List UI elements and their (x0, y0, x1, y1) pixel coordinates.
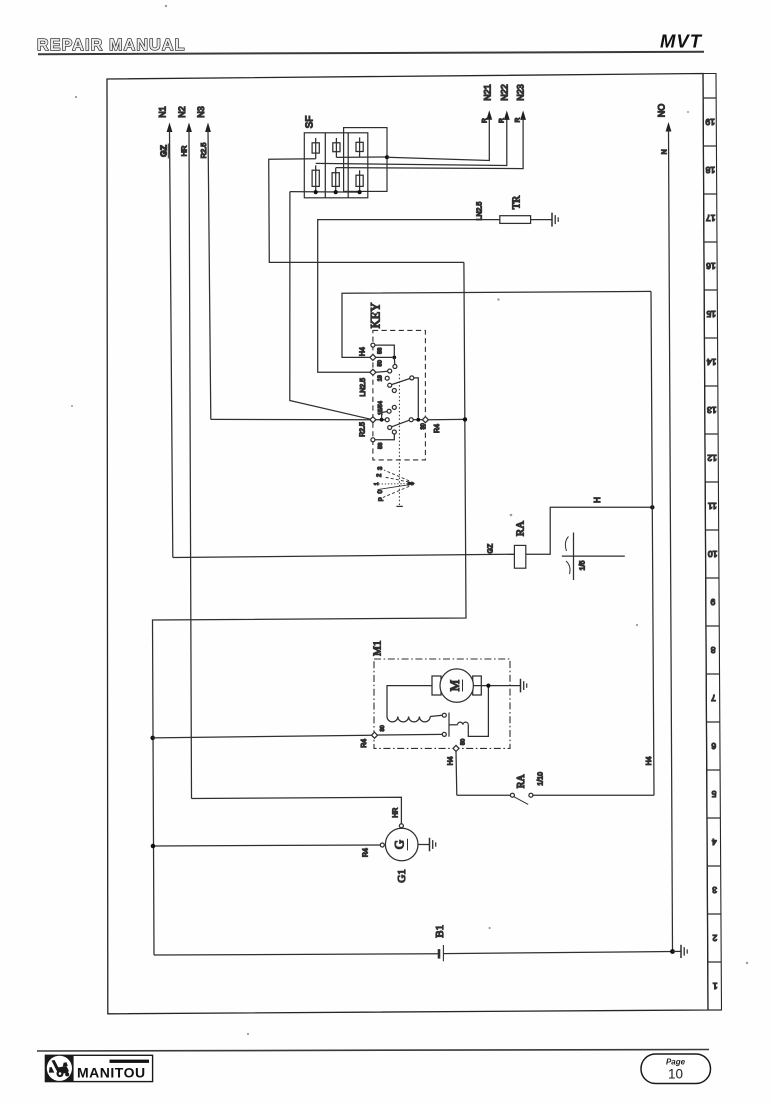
fuse F1 top row (312, 138, 319, 159)
ground at TR (552, 213, 558, 227)
svg-text:2: 2 (377, 473, 383, 477)
wire H4 label at solenoid bus (646, 756, 653, 765)
svg-text:KEY: KEY (369, 303, 383, 329)
fuse box SF label (305, 116, 316, 129)
node N23 arrow (336, 84, 526, 168)
svg-text:P: P (379, 497, 385, 501)
svg-text:12: 12 (707, 453, 717, 463)
KEY terminal 58 top (371, 343, 394, 355)
svg-text:N: N (662, 149, 669, 154)
fuse box SF outline A (304, 133, 368, 198)
SF supply bus wire (290, 191, 361, 194)
schematic outer frame (107, 74, 708, 1014)
motor M circle (432, 669, 481, 702)
wire H4 into KEY 50 (loop to solenoid bus) (342, 291, 651, 357)
svg-text:HR: HR (180, 145, 189, 156)
wire LN2.5 label at KEY (360, 378, 367, 397)
svg-text:17: 17 (706, 213, 716, 223)
svg-text:Page: Page (666, 1058, 686, 1067)
wire R2.5 label on N3 wire (199, 143, 208, 159)
KEY position fan arrow (378, 470, 416, 498)
fuse F5 bottom row (332, 168, 339, 192)
pin R label N21 (482, 118, 489, 123)
wire HR from N2 down to G1 (192, 797, 402, 824)
header logo MVT (660, 31, 703, 52)
page number oval (641, 1054, 711, 1084)
footer rule (37, 1050, 709, 1052)
header title REPAIR MANUAL (37, 37, 186, 54)
wire GZ horizontal to RA coil (173, 543, 515, 557)
junction fuse top tie (385, 155, 389, 159)
wire RA 1/10 to solenoid bus (533, 794, 654, 796)
svg-text:5: 5 (711, 789, 716, 799)
solenoid contact terminals (442, 713, 449, 737)
wire HR label on N2 wire (180, 145, 189, 156)
svg-text:H4: H4 (646, 756, 653, 765)
wire GZ label on N1 wire (159, 144, 169, 159)
battery B1 (434, 925, 446, 961)
svg-text:RA: RA (514, 521, 526, 536)
svg-text:50: 50 (460, 739, 466, 745)
wire solenoid bus vertical (KEY50 loop down to RA 1/10) (651, 291, 654, 795)
fuse F3 top row (356, 137, 363, 157)
KEY terminal 50 (370, 354, 392, 366)
switch KEY label (369, 303, 383, 329)
junction at 15/54 branch (380, 405, 397, 421)
fuse F4 bottom row (312, 165, 319, 192)
svg-text:GZ: GZ (159, 145, 169, 157)
svg-text:R: R (498, 118, 505, 123)
fuse F6 bottom row (356, 170, 363, 192)
wire R4 to G1 (153, 845, 380, 857)
wire long vertical KEY30/R4 down to lower bus (153, 262, 467, 955)
svg-text:H: H (593, 497, 602, 503)
svg-text:3: 3 (378, 466, 384, 470)
switch RA 1/10 (510, 772, 544, 805)
svg-text:16: 16 (706, 261, 716, 271)
svg-text:NO: NO (657, 104, 667, 118)
wire LN2.5 label near TR (477, 202, 484, 221)
svg-text:58: 58 (378, 443, 384, 449)
inductor field coil (387, 715, 442, 722)
svg-text:9: 9 (710, 597, 715, 607)
svg-text:0: 0 (378, 489, 384, 493)
svg-text:7: 7 (711, 693, 716, 703)
svg-text:N22: N22 (499, 84, 509, 101)
node N1 arrow (158, 106, 173, 557)
svg-text:RA: RA (516, 774, 527, 789)
M1 terminal 50 (H4) (448, 739, 467, 795)
ruler strip (703, 74, 722, 1011)
relay coil RA (514, 521, 526, 568)
svg-text:58: 58 (377, 348, 383, 354)
svg-text:R: R (482, 118, 489, 123)
svg-text:N2: N2 (177, 106, 187, 118)
junction on bus at F4 (314, 190, 318, 194)
KEY contact pair stage1 (388, 369, 392, 373)
node N3 arrow (196, 106, 211, 419)
svg-text:R4: R4 (434, 424, 441, 433)
motor unit M1 label (372, 641, 384, 656)
wire TR to ground (531, 219, 552, 221)
ground at motor M1 (521, 679, 527, 693)
svg-text:SF: SF (305, 116, 316, 129)
node N2 arrow (177, 106, 192, 798)
KEY terminal 58 bottom (371, 430, 396, 449)
svg-text:11: 11 (708, 501, 717, 511)
svg-text:1/5: 1/5 (580, 561, 587, 571)
wire N label (662, 149, 669, 154)
wire R4 branch to M1 30 (153, 735, 372, 738)
KEY terminal 30 (420, 417, 428, 430)
junction on bus at F6 (358, 190, 362, 194)
pin R label N23 (514, 117, 521, 122)
node N21 arrow (387, 84, 492, 160)
ground at G1 (430, 838, 436, 852)
svg-text:LN2.5: LN2.5 (360, 378, 367, 397)
svg-text:MVT: MVT (660, 31, 703, 52)
svg-text:LN2.5: LN2.5 (477, 202, 484, 221)
junction NO bus at bottom (670, 949, 675, 954)
generator G1 (380, 824, 418, 883)
svg-text:N1: N1 (158, 106, 168, 118)
junction H at solenoid bus (650, 505, 654, 509)
wire HR label at G1 (393, 808, 400, 818)
svg-text:15: 15 (706, 309, 716, 319)
junction at KEY 50 (392, 356, 397, 369)
svg-text:1: 1 (374, 482, 380, 485)
svg-text:30: 30 (420, 423, 426, 429)
footer logo MANITOU (45, 1055, 152, 1081)
svg-text:G: G (392, 840, 407, 849)
KEY terminal 19 (370, 369, 388, 381)
wire motor right brush to ground (473, 685, 520, 687)
wire LN2.5 from KEY 19 up to TR (318, 220, 500, 373)
solenoid coil and wire to motor junction (449, 686, 488, 737)
junction R4/G1 on left bus (151, 844, 156, 849)
svg-text:2: 2 (712, 933, 717, 943)
svg-text:1/10: 1/10 (538, 772, 545, 786)
svg-text:R: R (514, 117, 521, 122)
junction R4 wire at long vertical (463, 417, 467, 421)
fuse box SF outline B (344, 128, 387, 192)
wire KEY 30 to R4 junction (428, 419, 465, 433)
wire F1 to KEY 30 loop (left, down, right, down) (269, 159, 464, 263)
KEY stage2 contacts and blade (385, 376, 418, 418)
svg-text:N23: N23 (516, 84, 526, 101)
svg-text:8: 8 (711, 645, 716, 655)
connector 1/5 (562, 533, 625, 581)
svg-text:R2.5: R2.5 (360, 422, 367, 437)
svg-text:N21: N21 (482, 84, 492, 101)
svg-text:6: 6 (711, 741, 716, 751)
header rule (38, 52, 704, 54)
svg-text:R4: R4 (363, 848, 370, 857)
wire motor left brush to field coil (387, 686, 432, 717)
svg-text:14: 14 (707, 357, 717, 367)
resistor TR (500, 196, 531, 224)
wire bottom B1 run (154, 952, 673, 956)
svg-text:REPAIR MANUAL: REPAIR MANUAL (37, 37, 186, 54)
svg-text:GZ: GZ (488, 543, 495, 553)
fuse F2 top row (333, 138, 340, 158)
svg-text:R4: R4 (361, 739, 368, 748)
motor unit M1 dash-dot box (374, 659, 510, 748)
svg-text:H4: H4 (448, 756, 455, 765)
svg-text:H4: H4 (360, 347, 367, 356)
ground at NO bus bottom (673, 945, 688, 958)
svg-text:R2.5: R2.5 (199, 143, 208, 159)
svg-text:13: 13 (707, 405, 717, 415)
svg-text:M1: M1 (372, 641, 384, 656)
KEY terminal 15/54 (370, 401, 385, 423)
svg-text:50: 50 (377, 360, 383, 366)
KEY mechanical axis dash-dot (396, 374, 402, 506)
KEY stage3 contacts and blade (385, 418, 422, 430)
switch KEY dashed box (373, 330, 426, 460)
svg-text:10: 10 (668, 1067, 683, 1082)
junction R4 wire / M1 30 wire (150, 736, 155, 741)
svg-text:B1: B1 (434, 925, 446, 938)
wire H4 label at KEY (360, 347, 367, 356)
junction before KEY 30 (416, 418, 420, 422)
svg-text:10: 10 (708, 549, 718, 559)
M1 terminal 30 (R4 input) (361, 725, 442, 747)
node NO arrow and bus wire N (657, 104, 673, 952)
ruler numbers 1-19 (705, 117, 717, 991)
svg-text:30: 30 (380, 725, 386, 731)
svg-text:1: 1 (713, 981, 718, 991)
svg-text:MANITOU: MANITOU (77, 1064, 146, 1080)
svg-text:HR: HR (393, 808, 400, 818)
KEY position labels 3 2 1 0 P (374, 466, 385, 501)
svg-text:G1: G1 (396, 869, 408, 882)
svg-text:3: 3 (712, 885, 717, 895)
wire H label (593, 497, 602, 503)
svg-text:4: 4 (712, 837, 717, 847)
svg-text:19: 19 (705, 117, 715, 127)
wire R2.5 from N3 into KEY 15/54 (211, 419, 370, 436)
junction motor/solenoid (486, 684, 490, 688)
wire SF bus to KEY 15/54 (down + diagonal) (290, 192, 371, 420)
junction on bus at F5 (334, 190, 338, 194)
svg-text:18: 18 (705, 165, 715, 175)
svg-text:M: M (447, 679, 462, 691)
wire M1 50 to RA 1/10 switch (457, 794, 511, 796)
wire RA coil to H bus (526, 507, 653, 554)
svg-text:TR: TR (512, 196, 523, 209)
wire F2/F3 tie to junction (336, 156, 387, 158)
wire G1 to ground (418, 844, 430, 846)
svg-text:19: 19 (377, 375, 383, 381)
node N22 arrow (316, 84, 510, 165)
svg-text:N3: N3 (196, 106, 206, 118)
pin R label N22 (498, 118, 505, 123)
